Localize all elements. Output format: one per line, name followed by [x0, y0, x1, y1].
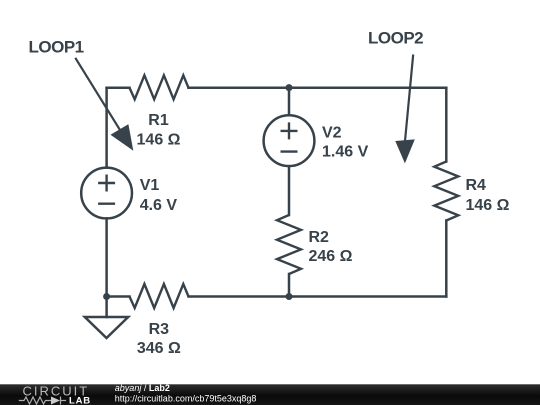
svg-text:246 Ω: 246 Ω	[309, 248, 353, 265]
svg-text:346 Ω: 346 Ω	[137, 340, 181, 357]
svg-text:V1: V1	[140, 177, 160, 194]
svg-text:4.6 V: 4.6 V	[140, 197, 178, 214]
svg-text:abyanj / Lab2: abyanj / Lab2	[115, 383, 170, 393]
svg-text:http://circuitlab.com/cb79t5e3: http://circuitlab.com/cb79t5e3xq8g8	[115, 394, 257, 404]
svg-text:V2: V2	[322, 125, 342, 142]
svg-text:R3: R3	[149, 321, 170, 338]
svg-text:LOOP2: LOOP2	[368, 29, 423, 48]
svg-text:LOOP1: LOOP1	[29, 38, 84, 57]
svg-text:146 Ω: 146 Ω	[137, 131, 181, 148]
svg-text:146 Ω: 146 Ω	[466, 197, 510, 214]
svg-text:R2: R2	[309, 229, 330, 246]
svg-text:R1: R1	[148, 112, 169, 129]
svg-text:1.46 V: 1.46 V	[322, 144, 369, 161]
svg-text:LAB: LAB	[69, 396, 91, 405]
svg-text:R4: R4	[466, 177, 487, 194]
